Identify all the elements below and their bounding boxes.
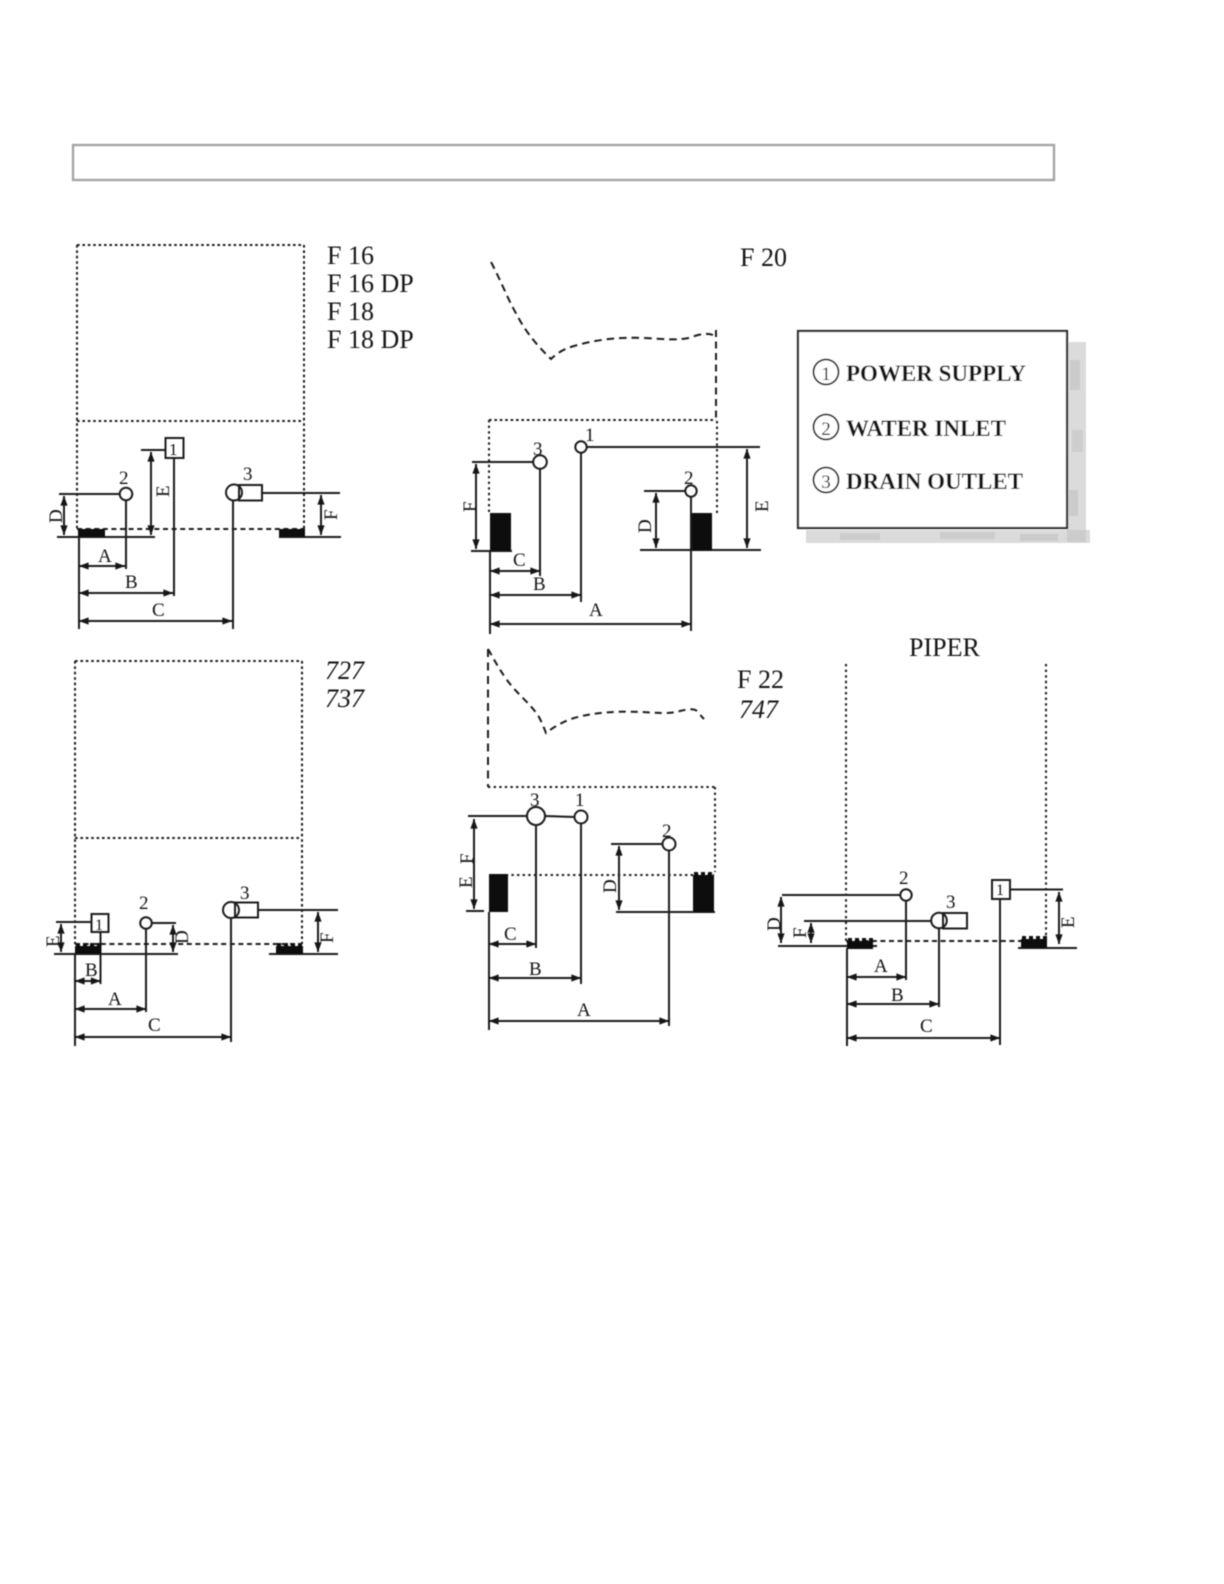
datum vertical left (F22) [488, 912, 490, 1030]
svg-text:3: 3 [240, 883, 250, 904]
svg-text:E: E [153, 485, 174, 497]
cabinet top dotted (F22) [488, 786, 715, 788]
drain outlet circle 3 (F22) [527, 807, 545, 825]
riser below box 1 (F16) [173, 458, 175, 596]
svg-text:F 18 DP: F 18 DP [327, 325, 414, 354]
component & dimension labels 727/737 [43, 883, 338, 1036]
svg-text:E: E [1058, 916, 1079, 928]
anchor foot left (PIPER) with serrated top [847, 938, 873, 949]
svg-text:3: 3 [946, 892, 956, 913]
floor line left (PIPER) [778, 945, 877, 947]
anchor block left (F20) [490, 513, 511, 551]
dim C (PIPER) [847, 1037, 1000, 1039]
svg-text:F: F [321, 509, 342, 520]
dim A (PIPER) [847, 976, 906, 978]
svg-text:727: 727 [325, 656, 365, 685]
drain outlet 3 (727) [223, 902, 258, 918]
datum vertical left (PIPER) [846, 948, 848, 1046]
dim F (F16) [320, 495, 322, 535]
riser below 3 (F22) [535, 825, 537, 948]
svg-text:F: F [457, 853, 478, 864]
cabinet right edge dotted (PIPER) [1045, 664, 1047, 939]
drain outlet circle 3 (F20) [533, 455, 547, 469]
legend item 1 text [821, 361, 1026, 386]
svg-text:1: 1 [585, 425, 595, 446]
svg-text:C: C [152, 600, 165, 621]
svg-text:F 22: F 22 [737, 665, 784, 694]
anchor block right (F20) [692, 513, 712, 551]
svg-text:D: D [46, 509, 67, 523]
cabinet outline 727/737 (dashed) [75, 661, 302, 944]
component & dimension labels PIPER [764, 868, 1079, 1037]
floor line left (F16) [57, 536, 155, 538]
dim D (F22) [618, 846, 620, 910]
component & dimension labels F20 [460, 425, 773, 621]
dim A (F20) [490, 623, 691, 625]
dim A (F22) [489, 1020, 669, 1022]
water inlet circle 2 (F22) [663, 838, 676, 851]
svg-text:C: C [513, 550, 526, 571]
dim D (PIPER) [780, 897, 782, 943]
model labels 727/737 [325, 656, 365, 713]
riser below 1 (F20) [580, 453, 582, 602]
svg-text:F 16: F 16 [327, 241, 374, 270]
leader from 2 (727) [152, 922, 176, 924]
power supply box 1 (F16) [141, 438, 184, 458]
svg-text:2: 2 [662, 821, 672, 842]
dim E (727) [60, 924, 62, 952]
cabinet top edge (F20) [489, 419, 716, 421]
floor datum dashed line (727) [75, 943, 302, 945]
power supply circle 1 (F20) [575, 441, 586, 452]
header box (empty title field) [73, 145, 1054, 180]
leader from 1 (F20) [587, 446, 760, 448]
riser below box 1 (PIPER) [999, 899, 1001, 1045]
legend item 3 circle [814, 468, 839, 493]
svg-text:C: C [920, 1016, 933, 1037]
riser below box 1 (727) [100, 932, 102, 984]
svg-text:DRAIN OUTLET: DRAIN OUTLET [846, 469, 1023, 494]
anchor foot right (727) with serrated top [276, 943, 303, 954]
torn top edge (F20) [491, 262, 713, 359]
legend shadow bottom [806, 530, 1090, 543]
svg-text:C: C [148, 1015, 161, 1036]
dim B (F16) [79, 592, 173, 594]
dim B (PIPER) [847, 1003, 939, 1005]
riser below 2 (727) [145, 929, 147, 1012]
water inlet circle 2 (F20) [685, 485, 696, 496]
floor line left (F20) [471, 550, 512, 552]
svg-text:3: 3 [530, 790, 540, 811]
svg-text:D: D [764, 917, 785, 931]
datum dashed line (PIPER) [846, 940, 1046, 942]
riser below 3 (727) [230, 917, 232, 1042]
cabinet outline F16 (dashed) [77, 245, 304, 529]
leader from inlet 2 (F16) [59, 493, 120, 495]
svg-text:WATER INLET: WATER INLET [846, 416, 1006, 441]
svg-text:B: B [125, 572, 138, 593]
legend item 1 circle [814, 360, 839, 385]
dim B (F20) [490, 594, 581, 596]
legend item 2 text [821, 416, 1006, 441]
riser below 1 (F22) [580, 824, 582, 985]
model labels F22/747 [737, 665, 784, 724]
dim D (727) [172, 925, 174, 952]
dim E (F16) [150, 452, 152, 535]
riser below 2 (PIPER) [905, 901, 907, 980]
cabinet right edge lower dotted (F20) [716, 421, 718, 513]
dim D (F16) [63, 496, 65, 535]
floor line right (PIPER) [1018, 947, 1077, 949]
drain outlet 3 (F16) [226, 485, 262, 501]
svg-text:A: A [874, 956, 888, 977]
dim C (F22) [489, 943, 536, 945]
riser below inlet 2 (F16) [125, 500, 127, 569]
cabinet left edge dotted (PIPER) [845, 664, 847, 941]
svg-text:A: A [98, 546, 112, 567]
leader to 3 (F22) [468, 815, 527, 817]
floor line right (F16) [279, 536, 341, 538]
svg-text:747: 747 [739, 695, 779, 724]
dim D (F20) [655, 493, 657, 548]
svg-text:3: 3 [821, 472, 831, 493]
svg-text:E: E [43, 935, 64, 947]
water inlet circle 2 (727) [140, 917, 152, 929]
leader from 3 (F20) [472, 461, 533, 463]
floor line right (F20) [640, 549, 761, 551]
svg-text:2: 2 [821, 419, 831, 440]
riser below 2 (F22) [668, 851, 670, 1027]
svg-text:3: 3 [533, 439, 543, 460]
legend item 3 text [821, 469, 1023, 494]
tick below E/F (F22) [466, 910, 484, 912]
component & dimension labels F22/747 [456, 790, 672, 1021]
leader to 3 (PIPER) [804, 920, 932, 922]
dim B (727) [75, 980, 101, 982]
svg-text:C: C [504, 924, 517, 945]
svg-text:2: 2 [899, 868, 909, 889]
power supply box 1 (PIPER) [992, 880, 1063, 899]
leader from 2 (PIPER) [782, 894, 900, 896]
legend item 2 circle [814, 415, 839, 440]
legend box [798, 331, 1067, 528]
svg-text:2: 2 [139, 893, 149, 914]
anchor foot right (F16) [279, 529, 305, 537]
floor datum dashed line F16 [77, 528, 305, 530]
svg-text:3: 3 [243, 464, 253, 485]
svg-text:B: B [85, 960, 98, 981]
svg-text:F: F [460, 501, 481, 512]
leader from 2 (F22) [611, 843, 663, 845]
anchor block left (F22) [489, 874, 508, 912]
power supply circle 1 (F22) [575, 811, 588, 824]
riser below outlet 3 (F16) [232, 500, 234, 629]
riser below 3 (F20) [539, 469, 541, 576]
component & dimension labels F16 [46, 440, 342, 621]
dim E/F (F22) [473, 819, 475, 909]
power supply box 1 (727) [56, 914, 109, 932]
dim C (F16) [79, 620, 232, 622]
datum dotted line (F22) [489, 874, 714, 876]
torn top edge (F22) [488, 649, 704, 733]
left edge dashed (F22) [487, 649, 489, 787]
svg-text:E: E [752, 500, 773, 512]
anchor foot left (F16) [78, 529, 105, 537]
dim A (F16) [79, 565, 125, 567]
svg-text:737: 737 [325, 684, 365, 713]
dim F (F20) [475, 464, 477, 549]
dim C (F20) [490, 570, 540, 572]
model labels F16 [327, 241, 414, 354]
cabinet right edge upper (F20) [715, 330, 717, 421]
leader from outlet 3 (F16) [262, 492, 340, 494]
svg-text:F: F [317, 932, 338, 943]
water inlet circle 2 (PIPER) [900, 889, 911, 900]
svg-text:D: D [635, 519, 656, 533]
dim B (F22) [489, 977, 581, 979]
svg-text:1: 1 [821, 364, 831, 385]
svg-text:2: 2 [684, 468, 694, 489]
svg-text:A: A [577, 1000, 591, 1021]
svg-text:A: A [589, 600, 603, 621]
dim E (PIPER) [1058, 892, 1060, 944]
svg-text:F 20: F 20 [740, 243, 787, 272]
anchor foot left (727) with serrated top [75, 943, 101, 954]
svg-text:1: 1 [169, 440, 178, 459]
svg-text:POWER SUPPLY: POWER SUPPLY [846, 361, 1026, 386]
cabinet right dotted (F22) [714, 787, 716, 872]
cabinet left edge dotted (F20) [488, 420, 490, 512]
datum vertical left (F16) [78, 537, 80, 629]
svg-text:E: E [456, 876, 477, 888]
floor line right (F22) [616, 911, 715, 913]
dim E (F20) [746, 449, 748, 548]
svg-text:1: 1 [575, 790, 585, 811]
legend shadow right [1067, 342, 1086, 542]
floor line left (727) [54, 953, 178, 955]
datum vertical left (727) [74, 954, 76, 1046]
svg-text:A: A [108, 989, 122, 1010]
svg-text:B: B [891, 985, 904, 1006]
leader from 3 (727) [258, 909, 338, 911]
svg-text:B: B [533, 574, 546, 595]
anchor block right (F22) with serrated top [693, 872, 714, 912]
riser below 2 (F20) [690, 497, 692, 631]
link 3 to 1 (F22) [545, 816, 575, 817]
dim F (PIPER) [810, 923, 812, 943]
svg-text:B: B [529, 959, 542, 980]
svg-text:2: 2 [119, 468, 129, 489]
svg-text:F 16 DP: F 16 DP [327, 269, 414, 298]
drain outlet 3 (PIPER) [931, 913, 967, 929]
svg-text:F 18: F 18 [327, 297, 374, 326]
dim F (727) [317, 912, 319, 952]
floor line right (727) [269, 953, 338, 955]
svg-text:D: D [172, 930, 193, 944]
svg-text:D: D [600, 879, 621, 893]
datum vertical left (F20) [489, 551, 491, 634]
svg-text:1: 1 [95, 917, 103, 934]
water inlet circle 2 (F16) [120, 488, 133, 501]
svg-text:1: 1 [996, 882, 1004, 899]
dim C (727) [75, 1036, 231, 1038]
leader from 2 (F20) [644, 490, 685, 492]
anchor foot right (PIPER) with serrated top [1021, 936, 1047, 948]
svg-text:F: F [790, 927, 811, 938]
dim A (727) [75, 1008, 146, 1010]
svg-text:PIPER: PIPER [909, 633, 980, 662]
riser below 3 (PIPER) [938, 929, 940, 1008]
